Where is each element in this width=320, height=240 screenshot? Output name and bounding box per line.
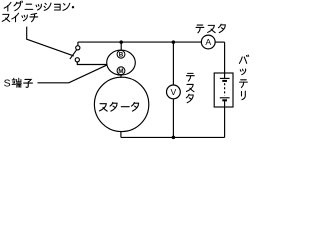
wire: switch top contact to top rail xyxy=(77,42,79,46)
ammeter A xyxy=(201,35,215,49)
wire: voltmeter branch lower segment xyxy=(172,99,174,138)
magnet switch (solenoid) body xyxy=(107,50,136,75)
battery dashed link xyxy=(224,83,226,96)
voltmeter V xyxy=(167,85,181,99)
node: junction at voltmeter branch on top rail xyxy=(172,40,176,44)
wire: stub from M terminal to starter xyxy=(120,75,122,78)
switch SW top contact xyxy=(76,46,80,50)
node: junction above B terminal xyxy=(119,40,123,44)
battery cell 2 negative plate xyxy=(222,99,227,101)
label: S terminal (S端子) xyxy=(4,78,33,90)
wire: switch bottom contact to solenoid S terminal xyxy=(77,62,107,65)
switch SW bottom contact xyxy=(75,58,79,62)
terminal B xyxy=(117,50,125,58)
switch SW blade (open) xyxy=(70,49,78,60)
label: tester (テスタ) above ammeter xyxy=(196,24,225,33)
wire: right rail down into battery positive plate xyxy=(224,42,226,78)
wire: stub from top rail to B terminal xyxy=(120,42,122,51)
svg-text:A: A xyxy=(205,37,211,47)
label: battery (バッテリ) vertical xyxy=(239,55,248,100)
wire: top rail right of ammeter xyxy=(215,41,224,43)
battery cell 1 negative plate xyxy=(222,80,227,82)
wire: starter bottom stub xyxy=(120,132,122,138)
wire: bottom rail xyxy=(121,136,225,138)
terminal M xyxy=(117,67,125,75)
label: ignition switch (イグニッション・スイッチ) line 1 xyxy=(4,1,74,11)
label: ignition switch line 2 xyxy=(2,13,37,22)
battery box xyxy=(214,73,233,107)
starter motor body xyxy=(94,77,148,131)
leader line from ignition switch label to switch blade xyxy=(27,27,74,56)
leader line from S terminal label to solenoid xyxy=(38,65,108,83)
wire: voltmeter branch upper segment xyxy=(172,42,174,85)
label: tester (テスタ) vertical beside voltmeter xyxy=(186,73,194,102)
svg-text:M: M xyxy=(118,68,123,75)
wire: battery negative down to bottom rail xyxy=(224,100,226,137)
wire: top rail xyxy=(78,41,201,43)
label: starter (スタータ) xyxy=(99,102,138,111)
battery cell 2 positive plate xyxy=(220,97,230,99)
node: junction of voltmeter branch on bottom rail xyxy=(172,136,176,140)
svg-text:S: S xyxy=(4,78,11,90)
svg-text:B: B xyxy=(119,52,124,59)
battery cell 1 positive plate xyxy=(220,77,230,79)
svg-text:V: V xyxy=(171,87,177,97)
